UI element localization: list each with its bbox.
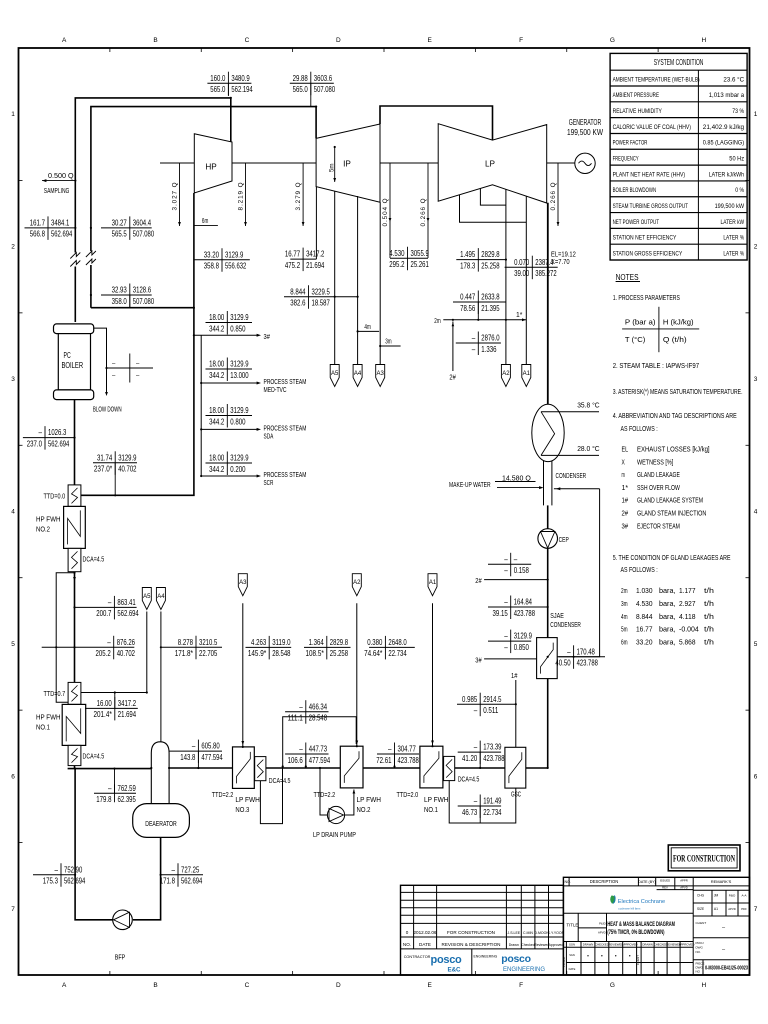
svg-text:bara,: bara, [659,612,676,621]
branch 3# [194,334,259,336]
svg-text:13.000: 13.000 [230,370,249,380]
CW outlet line 35.8C [541,411,599,413]
SJAE outlet down to GSC line [547,679,549,768]
svg-text:APPROVED: APPROVED [622,943,638,947]
svg-text:16.00: 16.00 [97,698,112,708]
svg-text:7: 7 [11,906,15,913]
svg-text:0-M3000-EB41/25-00023: 0-M3000-EB41/25-00023 [705,966,748,972]
svg-text:3484.1: 3484.1 [51,218,70,228]
svg-text:HP FWH: HP FWH [36,514,61,523]
svg-text:CEP: CEP [559,535,569,544]
label 447.73 [285,743,330,767]
svg-text:3210.5: 3210.5 [199,637,218,647]
svg-text:1.177: 1.177 [679,586,696,595]
svg-text:F: F [519,37,523,44]
PC boiler vessel [54,324,94,400]
svg-text:A1: A1 [714,907,718,911]
blowdown no-flow label [107,354,154,383]
gland leak line 0.266 Q [550,163,559,226]
svg-text:1.364: 1.364 [309,637,324,647]
svg-text:–: – [504,565,508,575]
svg-text:PROCESS STEAM: PROCESS STEAM [264,426,307,433]
svg-text:199,500 KW: 199,500 KW [567,128,603,137]
svg-text:CONDENSER: CONDENSER [550,620,581,629]
svg-text:Reviewed: Reviewed [534,943,549,947]
svg-text:TTD=2.0: TTD=2.0 [397,792,419,799]
svg-text:28.548: 28.548 [272,648,291,658]
6m tick [194,224,218,226]
svg-text:-0.004: -0.004 [679,625,699,634]
label 863.41 [75,596,139,620]
SJAE return loop to condenser [554,488,600,490]
svg-text:3417.2: 3417.2 [118,698,137,708]
svg-text:18.00: 18.00 [209,359,224,369]
svg-text:507.080: 507.080 [314,84,336,94]
svg-text:A1: A1 [523,371,531,377]
svg-text:NO.1: NO.1 [424,805,438,814]
svg-text:304.77: 304.77 [398,744,417,754]
svg-text:H: H [701,982,706,989]
svg-text:A3: A3 [377,371,385,377]
CEP discharge down [547,548,549,637]
svg-text:STATION NET EFFICIENCY: STATION NET EFFICIENCY [613,235,677,242]
label 4.530 LP extraction [389,247,429,270]
label 191.49 [458,795,502,824]
CW inlet line 28.0C [541,454,599,456]
svg-text:Checked: Checked [521,943,534,947]
svg-text:3.279 Q: 3.279 Q [295,181,302,210]
svg-text:0.266 Q: 0.266 Q [420,197,427,226]
svg-text:111.1: 111.1 [288,713,303,723]
svg-text:8.844: 8.844 [290,286,305,296]
svg-text:ISSUED: ISSUED [660,879,670,883]
svg-text:3: 3 [11,376,15,383]
svg-text:28.548: 28.548 [309,713,328,723]
label 0.158 [488,553,531,577]
svg-text:A2: A2 [502,371,510,377]
3m tick [380,345,400,347]
svg-text:(75% TMCR, 0% BLOWDOWN): (75% TMCR, 0% BLOWDOWN) [607,929,664,936]
svg-text:3m: 3m [621,599,628,608]
svg-text:2#: 2# [449,372,456,381]
svg-text:6m: 6m [202,216,208,225]
svg-text:STATION GROSS EFFICIENCY: STATION GROSS EFFICIENCY [613,250,683,257]
tag A4 [353,365,362,387]
svg-text:NO.2: NO.2 [36,524,50,533]
svg-text:SJAE: SJAE [550,611,564,620]
svg-text:8.278: 8.278 [178,637,193,647]
svg-text:3480.9: 3480.9 [231,73,250,83]
svg-text:143.8: 143.8 [180,752,195,762]
svg-text:DCA=4.5: DCA=4.5 [83,556,105,563]
svg-text:APPROVED: APPROVED [679,943,695,947]
svg-text:A4: A4 [354,371,362,377]
svg-text:MAKE-UP WATER: MAKE-UP WATER [449,482,491,489]
svg-text:WETNESS [%]: WETNESS [%] [637,457,673,466]
BFP discharge line [75,769,113,920]
svg-text:3055.9: 3055.9 [411,248,430,258]
svg-text:565.0: 565.0 [210,84,225,94]
svg-text:CLIENT: CLIENT [636,955,640,965]
HP FWH NO.1 heater [62,682,85,765]
svg-text:4.118: 4.118 [679,612,696,621]
svg-text:5: 5 [754,641,758,648]
svg-text:2876.0: 2876.0 [481,333,500,343]
svg-text:74.64*: 74.64* [364,648,383,658]
svg-text:posco: posco [431,954,462,966]
deaerator dome [151,742,169,805]
svg-text:31.74: 31.74 [97,452,112,462]
svg-text:1#: 1# [511,671,518,680]
svg-text:40.702: 40.702 [118,464,137,474]
svg-text:78.56: 78.56 [460,303,475,313]
turbine shaft lines [160,162,194,164]
svg-text:179.8: 179.8 [96,794,111,804]
svg-text:727.25: 727.25 [181,864,200,874]
svg-text:171.8*: 171.8* [175,648,194,658]
svg-text:ENGINEERING: ENGINEERING [474,955,498,959]
svg-text:382.6: 382.6 [290,298,305,308]
svg-text:t/h: t/h [704,638,714,647]
gland leak line 8.219 Q [238,163,247,226]
svg-text:REMARK'S: REMARK'S [711,879,732,884]
svg-text:PROCESS STEAM: PROCESS STEAM [264,472,307,479]
LP turbine [438,124,547,203]
svg-text:–: – [504,554,508,564]
label MED-TVC branch [206,358,253,382]
svg-text:164.84: 164.84 [514,597,533,607]
svg-text:3129.9: 3129.9 [230,405,249,415]
label A4 8.278 [161,636,222,660]
svg-text:0 %: 0 % [735,187,744,194]
svg-text:POSCO: POSCO [562,956,566,967]
svg-text:–: – [474,705,478,715]
process steam header line [81,308,194,496]
svg-text:AS FOLLOWS :: AS FOLLOWS : [621,567,658,574]
svg-text:21,402.9 kJ/kg: 21,402.9 kJ/kg [703,124,744,131]
svg-text:J.S.LEE: J.S.LEE [507,931,520,935]
svg-text:2m: 2m [434,316,440,325]
main steam line boiler to HP [75,98,231,322]
svg-text:POWER FACTOR: POWER FACTOR [613,140,648,147]
svg-text:–: – [504,597,508,607]
svg-text:G: G [610,982,615,989]
blowdown line [94,328,107,392]
process parameter key table [658,307,660,352]
IP turbine [316,124,380,202]
svg-text:AS FOLLOWS :: AS FOLLOWS : [621,426,658,433]
svg-text:GLAND STEAM INJECTION: GLAND STEAM INJECTION [637,509,706,518]
svg-text:posco: posco [501,953,530,965]
label A2 1.364 [304,636,351,660]
svg-text:–: – [472,333,476,343]
svg-text:507.080: 507.080 [133,296,155,306]
generator G [575,153,595,173]
LP drain pump loop [320,768,327,815]
process steam sub header [200,335,202,476]
svg-text:–: – [299,744,303,754]
A1 extraction line from LP [525,196,527,364]
label A3 4.263 [246,636,292,660]
svg-text:33.20: 33.20 [636,638,653,647]
svg-text:GLAND LEAKAGE SYSTEM: GLAND LEAKAGE SYSTEM [637,496,703,505]
label extraction to HP FWH2 31.74 [93,451,137,495]
label 605.80 deaerator inlet [169,740,223,768]
svg-text:466.34: 466.34 [309,701,328,711]
svg-text:–: – [108,597,112,607]
svg-text:358.8: 358.8 [204,261,219,271]
svg-text:18.00: 18.00 [209,312,224,322]
svg-text:DCA=4.5: DCA=4.5 [269,778,291,785]
svg-text:199,500 kW: 199,500 kW [715,203,745,210]
label 0.985 [457,693,516,717]
GSC [505,747,526,788]
svg-text:–: – [514,554,518,564]
svg-text:E: E [428,982,433,989]
svg-text:SCR: SCR [264,480,274,487]
svg-text:REV: REV [662,885,668,889]
svg-text:6: 6 [754,773,758,780]
svg-text:25.258: 25.258 [330,648,349,658]
svg-text:2.927: 2.927 [679,599,696,608]
svg-text:REVISION & DESCRIPTION: REVISION & DESCRIPTION [442,942,501,947]
svg-text:175.3: 175.3 [43,876,58,886]
svg-text:4.530: 4.530 [389,248,404,258]
svg-text:3129.9: 3129.9 [230,453,249,463]
svg-text:1,013 mbar a: 1,013 mbar a [709,92,745,99]
LP FWH NO.1 heater [420,746,455,788]
svg-text:Electrica Cochrane: Electrica Cochrane [618,899,665,905]
svg-text:EJECTOR STEAM: EJECTOR STEAM [637,521,680,530]
svg-text:H: H [701,37,706,44]
svg-text:178.3: 178.3 [460,260,475,270]
svg-text:A5: A5 [143,594,151,600]
tag A2 [352,574,361,596]
svg-text:3: 3 [754,376,758,383]
tag A3 [376,365,385,387]
connector 8.844 line to A4 line [335,296,358,298]
svg-text:•: • [629,954,631,960]
svg-text:33.20: 33.20 [204,249,219,259]
svg-text:bara,: bara, [659,599,676,608]
label 16.77 [285,248,325,272]
svg-text:–: – [108,783,112,793]
svg-text:237.0*: 237.0* [94,464,113,474]
tag A1 [428,574,437,596]
svg-text:2829.8: 2829.8 [481,249,500,259]
svg-text:TTD=0.0: TTD=0.0 [44,493,66,500]
svg-text:BLOW DOWN: BLOW DOWN [93,406,122,413]
svg-text:2387.4: 2387.4 [535,257,554,267]
svg-text:191.49: 191.49 [483,796,502,806]
svg-text:477.594: 477.594 [201,752,223,762]
svg-text:A: A [62,37,67,44]
IP exhaust line to A3 [379,202,381,364]
svg-text:170.48: 170.48 [577,646,596,656]
svg-text:2914.5: 2914.5 [483,694,502,704]
svg-text:–: – [474,742,478,752]
svg-text:TITLE: TITLE [566,923,578,928]
svg-text:8.219 Q: 8.219 Q [238,181,245,210]
svg-text:423.788: 423.788 [398,755,420,765]
svg-text:344.2: 344.2 [209,370,224,380]
svg-text:0.850: 0.850 [230,323,245,333]
svg-text:3129.9: 3129.9 [514,631,533,641]
system condition table [610,53,747,260]
LP FWH NO.3 heater [233,747,266,789]
1# line into GSC [515,680,517,747]
svg-text:G: G [610,37,615,44]
svg-text:t/h: t/h [704,612,714,621]
svg-text:106.6: 106.6 [288,755,303,765]
svg-text:S.Y.YOON: S.Y.YOON [548,931,565,935]
svg-text:344.2: 344.2 [209,464,224,474]
NO.3 drain loop [260,768,282,824]
label 164.84 [488,596,548,620]
svg-text:–: – [299,701,303,711]
svg-text:bara,: bara, [659,586,676,595]
svg-text:4: 4 [754,509,758,516]
svg-text:0.504 Q: 0.504 Q [382,197,389,226]
tag A4 [156,588,165,610]
svg-text:HEAT & MASS BALANCE DIAGRAM: HEAT & MASS BALANCE DIAGRAM [607,921,675,928]
deaerator vessel [133,804,190,838]
svg-text:E: E [428,37,433,44]
svg-text:DCA=4.5: DCA=4.5 [83,753,105,760]
svg-text:P (bar a): P (bar a) [625,317,656,326]
svg-text:DATE: DATE [569,967,576,971]
svg-text:–: – [172,864,176,874]
tag A5 [142,588,151,610]
svg-text:SIZE: SIZE [697,907,704,911]
svg-text:•: • [587,954,589,960]
svg-text:475.2: 475.2 [285,260,300,270]
GSC outlet line [526,767,548,769]
A2 extraction line from LP [505,189,507,364]
HP FWH NO.2 heater [64,485,86,572]
label A1 0.380 [364,636,415,660]
svg-text:P&ID: P&ID [729,894,736,898]
svg-text:DESCRIPTION: DESCRIPTION [590,879,619,884]
svg-text:2#: 2# [622,509,629,518]
label HP exhaust 33.20 [194,248,250,271]
svg-text:8.844: 8.844 [636,612,653,621]
svg-text:•: • [615,954,617,960]
svg-text:0.500 Q: 0.500 Q [48,173,74,180]
svg-text:NO.2: NO.2 [357,805,371,814]
svg-text:3603.6: 3603.6 [314,73,333,83]
svg-text:NO.: NO. [696,950,702,954]
LP condensate line deaerator to GSC [169,767,232,769]
branch SDA [201,428,258,430]
cold reheat line HP exhaust [91,193,194,308]
svg-text:3m: 3m [385,336,391,345]
svg-text:205.2: 205.2 [96,648,111,658]
svg-text:TTD=2.2: TTD=2.2 [314,792,336,799]
gland line 5m inside IP [334,147,336,182]
svg-text:2m: 2m [621,586,628,595]
svg-text:876.26: 876.26 [117,637,136,647]
pipe break [69,253,81,267]
svg-text:18.00: 18.00 [209,453,224,463]
svg-text:C.MIN: C.MIN [523,931,533,935]
LP exhaust main line to condenser [547,203,549,405]
svg-text:29.88: 29.88 [293,73,308,83]
svg-text:NO.: NO. [403,942,411,947]
svg-text:FREQUENCY: FREQUENCY [613,156,639,163]
svg-text:DRAWN: DRAWN [583,943,593,947]
label 173.39 [458,741,505,768]
svg-text:1.030: 1.030 [636,586,653,595]
svg-text:46.73: 46.73 [462,807,477,817]
boiler feed line economizer [74,400,76,485]
svg-text:H (kJ/kg): H (kJ/kg) [663,317,694,326]
NO.1 GSC drain loop [449,781,516,823]
svg-text:NO.3: NO.3 [235,805,249,814]
svg-text:21.694: 21.694 [118,709,137,719]
svg-text:Approved: Approved [549,943,564,947]
svg-text:T (°C): T (°C) [625,335,645,344]
svg-text:–: – [472,344,476,354]
svg-text:344.2: 344.2 [209,416,224,426]
svg-text:39.15: 39.15 [493,608,508,618]
svg-text:SGN: SGN [569,943,575,947]
svg-text:1: 1 [754,111,758,118]
svg-text:0.850: 0.850 [514,642,529,652]
svg-text:556.632: 556.632 [225,261,247,271]
svg-text:0.511: 0.511 [483,705,498,715]
svg-text:562.694: 562.694 [48,438,70,448]
svg-text:MED-TVC: MED-TVC [264,387,287,394]
deaerator feed line [68,768,152,770]
svg-text:752.90: 752.90 [64,864,83,874]
svg-text:BFP: BFP [115,952,126,961]
svg-text:A: A [62,982,67,989]
svg-text:t/h: t/h [704,586,714,595]
svg-text:B: B [153,37,157,44]
svg-text:P&ID: P&ID [599,922,606,926]
svg-text:50 Hz: 50 Hz [729,156,744,163]
svg-text:LATER kW: LATER kW [721,219,745,226]
make-up water line [497,487,542,489]
svg-text:bara,: bara, [659,638,676,647]
label SDA branch [206,404,253,428]
svg-text:22.705: 22.705 [199,648,218,658]
IP extraction 16.77 stub [315,187,317,260]
svg-text:40.50: 40.50 [555,658,570,668]
svg-text:160.0: 160.0 [210,73,225,83]
svg-text:25.261: 25.261 [411,259,430,269]
svg-text:IP: IP [343,160,351,169]
svg-text:LATER kJ/kWh: LATER kJ/kWh [709,171,745,178]
svg-text:A5: A5 [331,371,339,377]
svg-text:39.00: 39.00 [514,268,529,278]
svg-text:28.0 °C: 28.0 °C [577,445,599,453]
svg-text:2648.0: 2648.0 [388,637,407,647]
svg-text:72.61: 72.61 [376,755,391,765]
svg-text:21.694: 21.694 [306,260,325,270]
svg-text:1.336: 1.336 [481,344,496,354]
svg-text:NET POWER OUTPUT: NET POWER OUTPUT [613,219,659,226]
HP drain bypass line [56,573,74,703]
tag A2 [501,365,510,387]
4m tick [358,330,380,332]
svg-text:PLANT NET HEAT RATE (HHV): PLANT NET HEAT RATE (HHV) [613,171,686,178]
svg-text:ENGINEERING: ENGINEERING [503,967,545,973]
svg-text:CONDENSER: CONDENSER [556,471,587,480]
svg-text:CHECKED: CHECKED [595,943,609,947]
svg-text:2012.02.06: 2012.02.06 [414,930,437,935]
